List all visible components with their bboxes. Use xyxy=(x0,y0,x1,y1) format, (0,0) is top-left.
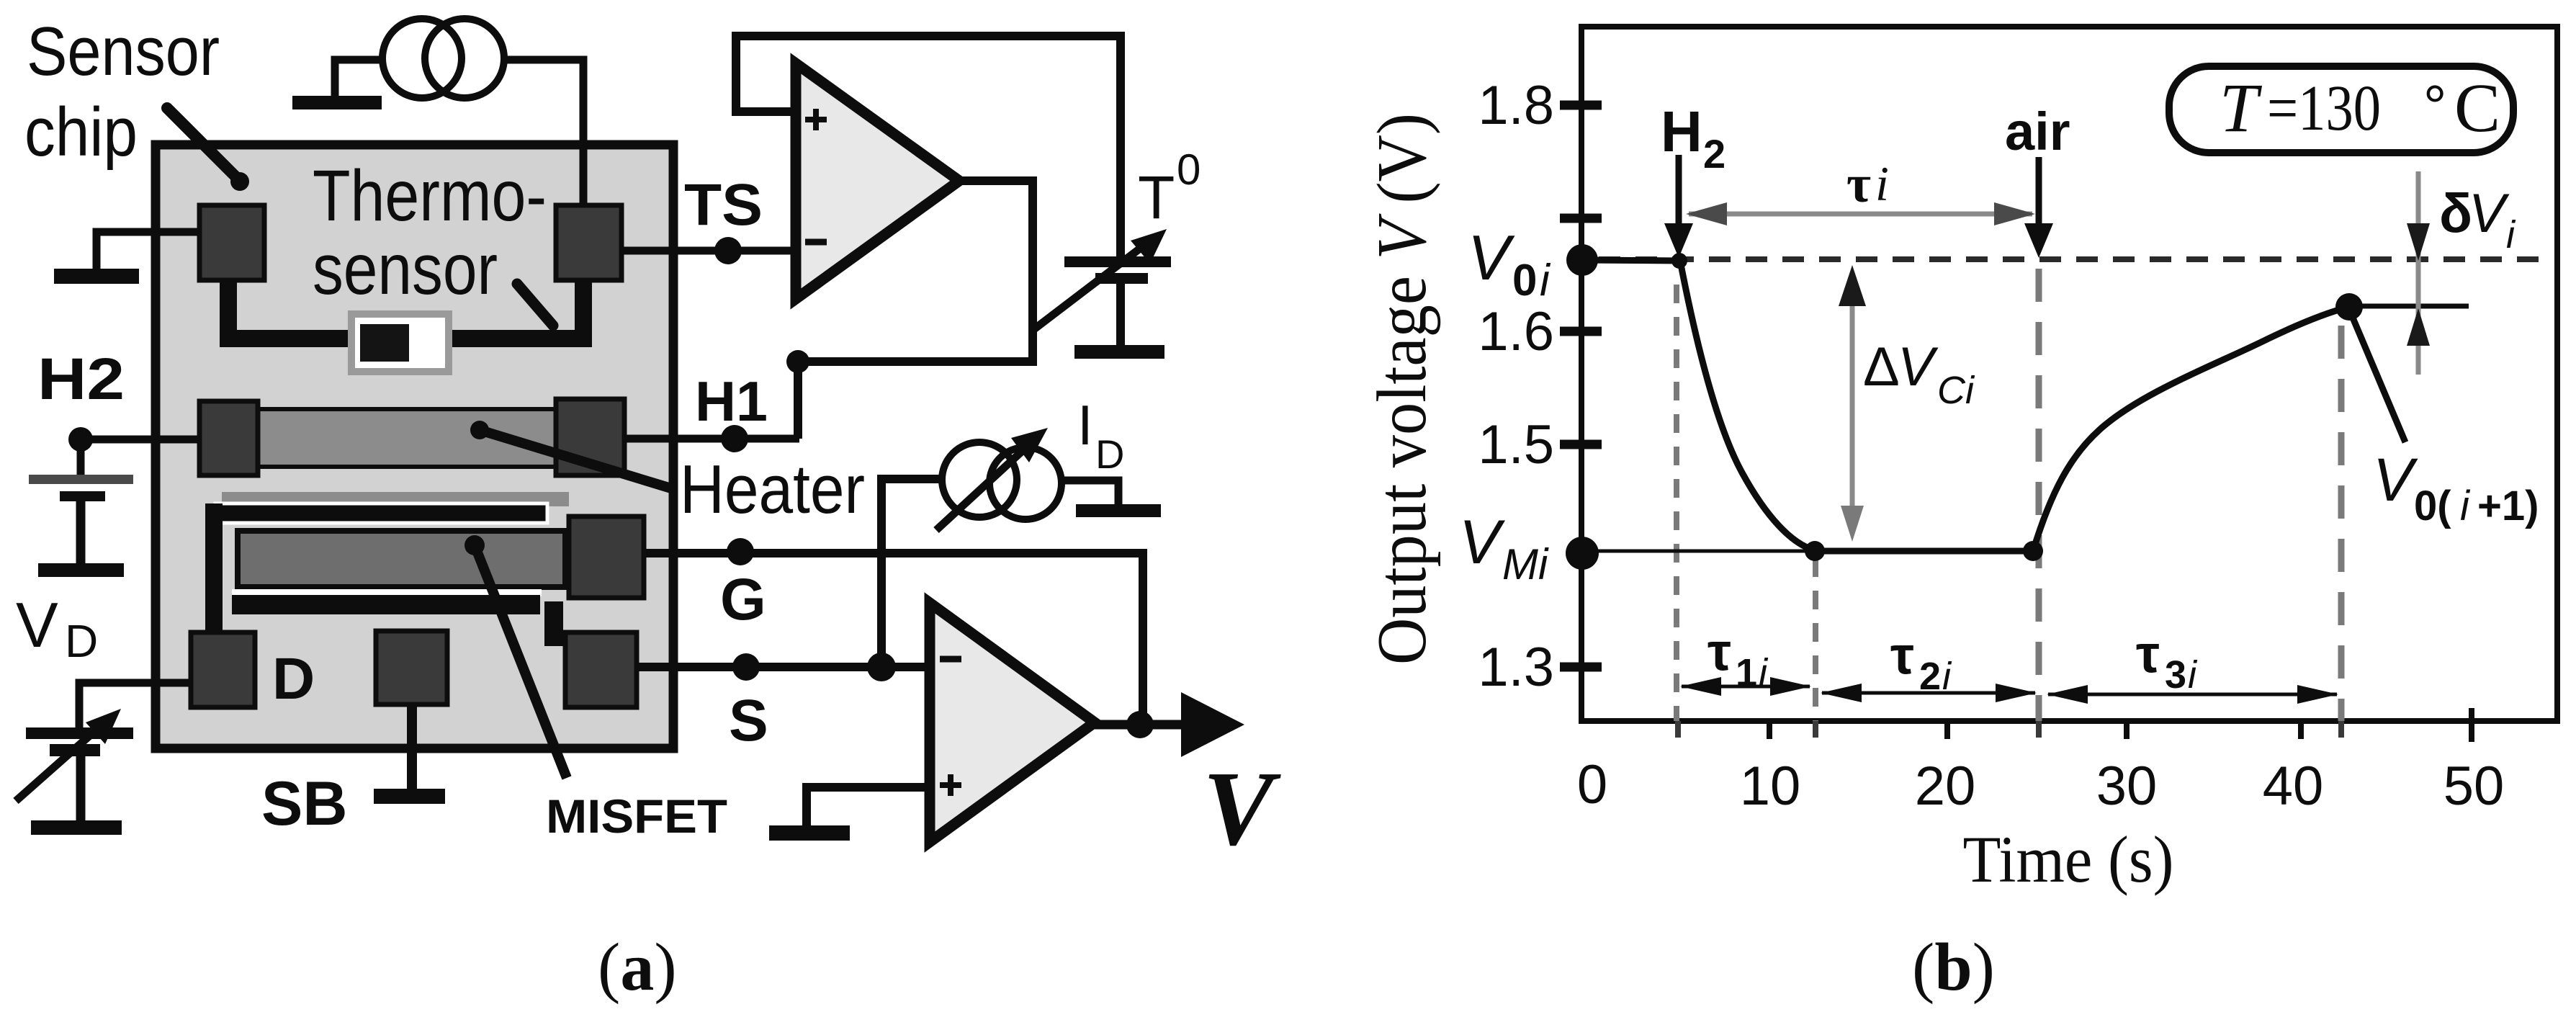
wire H1 vertical up to op-amp U1 output loop xyxy=(794,359,802,439)
svg-text:1: 1 xyxy=(1736,651,1757,694)
svg-text:1.3: 1.3 xyxy=(1478,637,1554,698)
label Delta-V-Ci xyxy=(1863,336,1975,412)
wire H1 (heater pad to feedback) xyxy=(624,435,799,443)
svg-text:τ: τ xyxy=(1846,155,1871,214)
pad TR (thermo-sensor right contact) xyxy=(556,205,621,280)
measure arrow tau-i xyxy=(1686,202,2035,225)
svg-text:Time (s): Time (s) xyxy=(1963,823,2174,896)
svg-text:D: D xyxy=(1095,431,1124,477)
svg-text:S: S xyxy=(729,688,768,753)
svg-text:i: i xyxy=(2188,653,2198,697)
svg-text:Sensor: Sensor xyxy=(27,13,220,90)
wire from current source I1 down to thermo-sensor right pad xyxy=(501,60,583,216)
annotation box T = 130 °C xyxy=(2169,66,2513,153)
label tau-3i xyxy=(2136,624,2198,697)
node output (dot) xyxy=(1126,711,1154,738)
svg-text:H2: H2 xyxy=(37,346,125,412)
measure arrow tau-3i xyxy=(2047,685,2338,704)
svg-text:H: H xyxy=(1661,99,1702,164)
node S (dot) xyxy=(732,653,760,681)
svg-text:G: G xyxy=(720,567,766,632)
wire from current source I1 to ground (left) xyxy=(335,60,386,98)
measure arrow Delta-V-Ci xyxy=(1839,265,1866,542)
svg-text:τ: τ xyxy=(2136,624,2160,684)
label delta-Vi xyxy=(2439,183,2516,256)
MISFET gray base bar xyxy=(222,492,569,506)
pad HL (heater left contact) xyxy=(199,401,258,475)
op-amp U1 non-inverting input wire and top rail xyxy=(736,36,1121,257)
svg-text:i: i xyxy=(1540,256,1551,305)
MISFET stub to pad S xyxy=(544,601,563,646)
heater bar xyxy=(257,409,556,467)
output arrowhead V xyxy=(1181,692,1244,757)
svg-text:chip: chip xyxy=(24,94,138,171)
svg-text:TS: TS xyxy=(684,172,763,238)
pointer from "sensor" label to thermo-sensor element xyxy=(517,284,553,326)
svg-text:Heater: Heater xyxy=(680,451,865,528)
svg-text:20: 20 xyxy=(1915,756,1976,817)
svg-text:H1: H1 xyxy=(695,370,768,433)
svg-text:(a): (a) xyxy=(598,930,677,1005)
svg-text:+1): +1) xyxy=(2477,483,2539,529)
MISFET white channel gap xyxy=(232,589,542,596)
node H1 (dot on wire) xyxy=(721,425,748,452)
node V0i (dot on axis) xyxy=(1566,244,1598,276)
svg-text:i: i xyxy=(2506,213,2516,256)
MISFET bottom black bar xyxy=(232,595,540,614)
node minimum end (dot) xyxy=(2023,541,2043,561)
thermo-sensor element xyxy=(351,314,449,372)
label ID xyxy=(1077,393,1124,477)
pad HR (heater right contact) xyxy=(556,399,624,475)
svg-text:D: D xyxy=(65,615,98,667)
svg-text:2: 2 xyxy=(1919,655,1941,698)
label "Sensor chip" xyxy=(24,13,220,171)
svg-text:(b): (b) xyxy=(1912,930,1995,1005)
svg-text:0: 0 xyxy=(1512,256,1537,305)
svg-text:V: V xyxy=(2469,183,2510,244)
node (loop corner dot) xyxy=(786,350,809,373)
dashed vertical at air purge xyxy=(2036,269,2042,721)
wire junction up to current source ID xyxy=(881,479,941,667)
wire H2 to heater left pad xyxy=(81,436,209,444)
label V0i xyxy=(1468,222,1551,305)
node H2 junction (dot) xyxy=(1671,253,1687,269)
variable source T° (temperature setpoint) xyxy=(1031,229,1171,346)
battery VD (H2 bias) xyxy=(29,439,133,577)
svg-text:V: V xyxy=(1459,508,1506,577)
label tau-i xyxy=(1846,155,1889,214)
ground wire (op-amp U2 plus input) xyxy=(807,787,930,827)
curve: response drop xyxy=(1680,261,1815,550)
svg-text:Ci: Ci xyxy=(1937,369,1975,412)
svg-text:3: 3 xyxy=(2165,653,2186,697)
pointer from "Sensor chip" label to chip xyxy=(167,108,249,191)
MISFET gate bar xyxy=(238,531,565,587)
x-axis minor ticks at event positions xyxy=(1678,721,2341,738)
label tau-1i xyxy=(1707,622,1769,694)
svg-text:Mi: Mi xyxy=(1502,540,1549,588)
svg-text:δ: δ xyxy=(2439,183,2472,244)
svg-text:i: i xyxy=(1875,156,1889,211)
dashed baseline V0i (horizontal) xyxy=(1599,256,2553,262)
svg-text:air: air xyxy=(2005,102,2070,161)
wire from thermo-sensor left pad to ground (top-left) xyxy=(97,232,202,270)
op-amp U1 output feedback loop to H1 xyxy=(798,181,1033,362)
current source I1 (thermo-sensor bias, overlapping circles) xyxy=(382,19,504,98)
svg-text:=130: =130 xyxy=(2267,73,2381,144)
arrow H2 injection xyxy=(1664,155,1693,258)
label VMi xyxy=(1459,508,1549,588)
svg-text:V: V xyxy=(1203,750,1281,868)
curve: baseline segment xyxy=(1581,260,1680,261)
thin line VMi to minimum xyxy=(1582,550,1815,553)
svg-text:D: D xyxy=(272,646,315,712)
svg-text:T: T xyxy=(2220,69,2263,146)
current source ID (overlapping circles, variable) xyxy=(936,428,1062,530)
svg-text:1.8: 1.8 xyxy=(1478,75,1554,136)
arrow air purge xyxy=(2024,157,2053,258)
svg-text:0(: 0( xyxy=(2414,483,2451,529)
pointer from heater bar to "Heater" label xyxy=(470,421,671,488)
x-axis ticks xyxy=(1769,708,2472,742)
ground (SB) xyxy=(374,789,445,804)
node G (dot) xyxy=(727,538,754,565)
MISFET top black bar (source line) with white outline xyxy=(215,503,547,523)
op-amp U2 xyxy=(930,603,1095,842)
svg-text:1.6: 1.6 xyxy=(1478,301,1554,362)
ground (current source ID) xyxy=(1076,504,1161,517)
svg-text:30: 30 xyxy=(2096,756,2158,817)
svg-text:V: V xyxy=(1468,222,1515,293)
wire D pad to variable drain source xyxy=(79,683,191,729)
wire SB pad to ground xyxy=(407,704,417,790)
y-axis ticks xyxy=(1560,105,1602,667)
svg-text:0: 0 xyxy=(1577,754,1607,815)
node TS (dot) xyxy=(714,237,742,264)
svg-text:V: V xyxy=(16,589,58,661)
pad SB (substrate contact) xyxy=(376,631,447,704)
label V0(i+1) xyxy=(2373,446,2539,529)
variable source (drain bias) xyxy=(16,709,133,820)
svg-text:V: V xyxy=(1898,336,1939,398)
svg-text:0: 0 xyxy=(1177,145,1201,194)
node minimum start (dot) xyxy=(1805,541,1825,561)
ground (drain variable source) xyxy=(31,820,122,835)
ground (current source I1) xyxy=(292,96,382,109)
output wire V xyxy=(1095,720,1187,730)
pointer from MISFET gate to "MISFET" label xyxy=(465,535,567,778)
plot frame xyxy=(1581,27,2557,721)
svg-text:Thermo-: Thermo- xyxy=(313,156,547,236)
svg-text:SB: SB xyxy=(261,769,347,838)
wire TS (thermo pad to op-amp U1 minus input) xyxy=(621,247,796,255)
measure arrow tau-1i xyxy=(1680,677,1811,696)
pointer from peak dot to V0(i+1) label xyxy=(2351,313,2405,442)
wire G (gate pad to output node) xyxy=(644,553,1143,725)
thermo-sensor interconnect wire xyxy=(228,279,583,339)
node junction S / ID (dot) xyxy=(867,653,896,681)
ground (top-left, thermo-sensor) xyxy=(54,269,139,284)
svg-text:i: i xyxy=(2460,483,2471,529)
wire current source ID to ground xyxy=(1061,480,1118,506)
node H2 (dot) xyxy=(68,427,93,452)
svg-text:50: 50 xyxy=(2443,756,2505,817)
label VD xyxy=(16,589,98,667)
label "Thermo- sensor" xyxy=(313,156,547,310)
svg-text:i: i xyxy=(1942,655,1952,698)
curve: recovery rise xyxy=(2033,307,2349,551)
svg-text:Δ: Δ xyxy=(1863,336,1900,398)
svg-text:MISFET: MISFET xyxy=(546,789,727,843)
node VMi (dot on axis) xyxy=(1566,537,1599,570)
svg-text:τ: τ xyxy=(1707,622,1731,681)
pad TL (thermo-sensor left contact) xyxy=(199,205,264,280)
svg-text:V: V xyxy=(2373,446,2418,514)
svg-text:T: T xyxy=(1138,164,1175,231)
svg-text:Output voltage V (V): Output voltage V (V) xyxy=(1363,113,1441,665)
measure arrow delta-Vi xyxy=(2407,171,2430,375)
svg-text:°: ° xyxy=(2424,73,2446,134)
svg-text:τ: τ xyxy=(1890,625,1914,685)
curve: minimum plateau xyxy=(1815,548,2033,555)
svg-text:I: I xyxy=(1077,393,1093,457)
dashed vertical at recovery point xyxy=(2338,326,2345,721)
node V0(i+1) peak (dot) xyxy=(2335,293,2363,321)
line at recovered level xyxy=(2349,304,2469,309)
ground (op-amp U2 plus input) xyxy=(769,825,850,841)
pad G (gate contact) xyxy=(569,516,644,598)
label T° xyxy=(1138,145,1201,231)
y-axis tick labels xyxy=(1478,75,1554,698)
op-amp U1 xyxy=(796,63,959,299)
svg-text:C: C xyxy=(2454,69,2500,146)
MISFET drain line (left vertical) xyxy=(205,503,223,642)
sensor chip body (chip outline) xyxy=(156,145,673,748)
x-axis tick labels xyxy=(1577,754,2504,817)
svg-text:2: 2 xyxy=(1703,131,1725,176)
pad S (source contact) xyxy=(565,632,637,707)
dashed vertical at response minimum xyxy=(1813,558,1818,721)
ground (T° source) xyxy=(1074,345,1164,359)
svg-text:10: 10 xyxy=(1740,756,1801,817)
dashed vertical at H2 exposure xyxy=(1674,285,1679,721)
svg-text:40: 40 xyxy=(2263,756,2324,817)
wire S (source pad to op-amp U2 minus input) xyxy=(637,663,930,671)
svg-text:1.5: 1.5 xyxy=(1478,414,1554,475)
svg-text:sensor: sensor xyxy=(313,229,498,310)
measure arrow tau-2i xyxy=(1821,684,2037,702)
label tau-2i xyxy=(1890,625,1952,698)
pad D (drain contact) xyxy=(191,632,255,707)
svg-text:i: i xyxy=(1759,651,1769,694)
label H2 (injection) xyxy=(1661,99,1725,176)
